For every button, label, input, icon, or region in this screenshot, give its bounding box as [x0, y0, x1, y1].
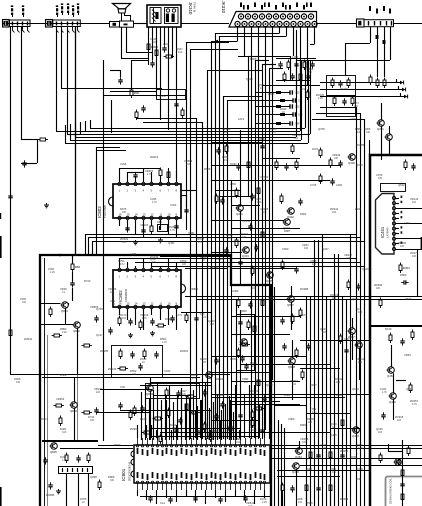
op-amp IC802	[113, 268, 186, 308]
wire	[396, 213, 400, 215]
wire	[151, 425, 153, 438]
svg-text:D664: D664	[300, 212, 307, 216]
wire	[293, 26, 295, 56]
resistor R312	[294, 61, 298, 68]
transistor Q304	[242, 247, 250, 259]
svg-text:ZD388: ZD388	[300, 287, 309, 291]
capacitor C305	[141, 105, 145, 112]
wire	[176, 172, 178, 182]
wire	[230, 401, 280, 403]
wire	[150, 428, 240, 430]
wire	[229, 396, 231, 440]
wire	[396, 233, 400, 235]
svg-text:100: 100	[334, 157, 339, 160]
svg-text:R82: R82	[75, 265, 81, 269]
svg-text:Q453: Q453	[352, 434, 359, 438]
wire	[240, 432, 330, 434]
wire	[137, 490, 139, 496]
capacitor C301	[162, 45, 166, 52]
wire	[135, 266, 137, 268]
wire	[160, 266, 162, 268]
transistor Q809	[205, 372, 213, 379]
resistor R600	[129, 410, 132, 421]
wire	[85, 121, 87, 131]
svg-text:10K: 10K	[172, 427, 177, 430]
resonator X301	[157, 90, 186, 100]
wire	[185, 296, 422, 298]
node JK301 pin	[282, 3, 284, 8]
svg-text:Q267: Q267	[322, 247, 329, 251]
wire	[61, 88, 162, 90]
wire	[181, 312, 211, 314]
svg-text:ZD651: ZD651	[340, 449, 349, 453]
wire	[254, 385, 256, 438]
wire	[334, 254, 336, 506]
svg-text:C30: C30	[120, 385, 125, 389]
transistor Q451	[387, 367, 395, 379]
resistor R345	[281, 260, 284, 271]
wire	[157, 382, 159, 440]
svg-text:Q801: Q801	[61, 309, 68, 313]
wire	[235, 385, 237, 438]
wire	[230, 404, 300, 406]
capacitor C619	[220, 401, 224, 408]
resistor R309	[306, 90, 309, 101]
wire	[47, 335, 49, 506]
wire	[201, 400, 203, 440]
svg-text:ZD990: ZD990	[165, 317, 174, 321]
svg-text:1UF: 1UF	[358, 311, 363, 314]
svg-text:DEGAUSSING COIL: DEGAUSSING COIL	[389, 478, 393, 504]
wire	[231, 180, 233, 255]
resistor R814	[185, 313, 188, 324]
svg-text:4.7K: 4.7K	[382, 391, 387, 394]
resistor R304	[155, 48, 158, 59]
svg-text:10K: 10K	[357, 131, 362, 134]
resistor R456	[409, 383, 412, 394]
svg-text:C332: C332	[164, 369, 171, 373]
wire	[141, 430, 143, 438]
wire	[396, 218, 400, 220]
capacitor C355	[282, 343, 286, 350]
resistor R606	[203, 422, 206, 433]
wire	[85, 234, 356, 236]
svg-text:10K: 10K	[122, 241, 127, 244]
wire	[166, 490, 168, 498]
wire	[396, 198, 400, 200]
svg-text:R800: R800	[400, 273, 407, 277]
svg-text:4.7K: 4.7K	[62, 459, 67, 462]
capacitor C805	[174, 223, 178, 230]
wire	[417, 250, 419, 296]
svg-text:2.2K: 2.2K	[358, 447, 363, 450]
svg-text:ZD133: ZD133	[108, 367, 117, 371]
svg-text:100: 100	[400, 245, 405, 248]
wire	[223, 96, 225, 439]
node JK302 pin	[376, 9, 378, 14]
wire	[181, 400, 183, 438]
wire	[65, 308, 67, 324]
svg-text:ZD542: ZD542	[24, 337, 33, 341]
wire	[77, 328, 79, 374]
svg-text:1K: 1K	[262, 211, 265, 214]
wire	[320, 82, 400, 84]
wire	[196, 299, 422, 301]
wire	[119, 258, 121, 268]
svg-text:2.2K: 2.2K	[50, 271, 55, 274]
wire	[396, 380, 406, 382]
svg-text:D46: D46	[356, 477, 361, 481]
wire	[151, 309, 153, 315]
resistor R354	[237, 298, 240, 309]
wire	[220, 420, 222, 438]
wire	[140, 385, 211, 387]
inductor L301	[255, 92, 290, 94]
resistor R869	[251, 410, 254, 421]
resistor R462	[329, 450, 332, 461]
resistor R359	[295, 348, 298, 359]
shield box SB451	[381, 184, 406, 192]
svg-text:47U: 47U	[192, 377, 197, 380]
svg-text:Q574: Q574	[300, 313, 307, 317]
svg-text:2.2K: 2.2K	[318, 97, 323, 100]
wire	[168, 220, 170, 234]
svg-text:4.5M: 4.5M	[159, 94, 166, 98]
wire	[100, 389, 152, 391]
capacitor C321	[338, 80, 342, 87]
wire	[369, 140, 371, 155]
svg-text:1UF: 1UF	[224, 159, 229, 162]
wire	[240, 310, 242, 440]
diode D33x	[402, 88, 405, 92]
node JK301 pin	[303, 5, 305, 10]
capacitor C812	[150, 318, 154, 325]
wire	[236, 300, 238, 440]
wire	[151, 262, 153, 268]
wire	[150, 378, 152, 385]
wire	[211, 420, 260, 422]
wire	[160, 220, 162, 230]
wire	[277, 470, 370, 472]
wire	[186, 42, 188, 230]
resistor R451	[404, 160, 407, 171]
svg-text:13: 13	[143, 302, 146, 306]
svg-text:IC451: IC451	[380, 226, 385, 238]
svg-text:Q808: Q808	[240, 309, 247, 313]
svg-text:C32: C32	[295, 106, 300, 109]
svg-text:Q808: Q808	[288, 365, 295, 369]
node JK302 pin	[369, 6, 371, 11]
svg-text:IC803: IC803	[97, 206, 102, 218]
svg-text:ZD239: ZD239	[150, 255, 159, 259]
wire	[318, 240, 320, 506]
wire	[2, 23, 110, 25]
svg-text:1UF: 1UF	[294, 137, 299, 140]
wire	[173, 402, 175, 440]
svg-text:Q769: Q769	[96, 307, 103, 311]
svg-text:C382: C382	[232, 289, 239, 293]
wire	[396, 249, 422, 251]
svg-text:Q485: Q485	[330, 433, 337, 437]
svg-text:ZD619: ZD619	[150, 155, 159, 159]
capacitor C607	[214, 413, 218, 420]
node JK301 pin	[289, 5, 291, 10]
svg-text:Q566: Q566	[306, 501, 313, 505]
wire	[193, 390, 195, 440]
svg-text:10K: 10K	[312, 263, 317, 266]
svg-text:10K: 10K	[242, 236, 247, 239]
wire	[74, 377, 76, 402]
resistor R832	[143, 349, 146, 360]
svg-text:47U: 47U	[198, 241, 203, 244]
svg-text:ZD664: ZD664	[180, 349, 189, 353]
wire	[396, 228, 400, 230]
capacitor C341	[250, 193, 254, 200]
wire	[396, 238, 422, 240]
wire	[161, 400, 163, 440]
resistor R618	[185, 402, 188, 413]
resistor R864	[247, 320, 250, 331]
svg-text:JK310: JK310	[188, 2, 193, 15]
wire	[156, 430, 158, 438]
wire	[305, 60, 307, 128]
resistor R343	[280, 194, 283, 205]
svg-text:Q305: Q305	[266, 279, 273, 283]
inductor L321	[351, 96, 354, 107]
resistor R452	[399, 263, 410, 274]
svg-text:4.7K: 4.7K	[147, 173, 152, 176]
svg-text:100: 100	[224, 131, 229, 134]
wire	[143, 258, 145, 268]
resistor R322	[347, 78, 350, 89]
wire	[338, 254, 340, 506]
svg-text:Q137: Q137	[96, 333, 103, 337]
diode D33x	[404, 95, 407, 99]
svg-text:JK310: JK310	[221, 1, 226, 14]
wire	[306, 413, 350, 415]
wire	[377, 27, 379, 77]
svg-text:100: 100	[110, 479, 115, 482]
capacitor C824	[108, 327, 112, 334]
wire	[92, 241, 364, 243]
wire	[240, 364, 330, 366]
wire	[160, 432, 330, 434]
wire	[153, 390, 155, 440]
resistor R352	[261, 230, 264, 241]
svg-text:223: 223	[96, 391, 101, 394]
svg-text:104: 104	[302, 441, 307, 444]
capacitor C345	[338, 160, 342, 167]
transistor Q801	[61, 302, 69, 314]
svg-text:Q804: Q804	[70, 409, 77, 413]
wire	[190, 425, 192, 438]
wire	[168, 258, 170, 268]
svg-text:1UF: 1UF	[178, 51, 183, 54]
wire	[205, 382, 207, 440]
capacitor C823	[94, 315, 98, 322]
wire	[272, 26, 274, 380]
wire	[232, 205, 260, 207]
wire	[310, 296, 312, 506]
svg-text:Q317: Q317	[352, 297, 359, 301]
inductor L304	[255, 114, 293, 116]
svg-text:C84: C84	[157, 220, 162, 224]
transistor Q302	[287, 208, 295, 220]
connector P803	[59, 467, 93, 474]
wire	[310, 60, 312, 134]
capacitor C453	[400, 338, 404, 345]
wire	[181, 388, 183, 440]
resistor R342	[257, 186, 260, 197]
wire	[314, 26, 316, 44]
wire	[140, 496, 270, 498]
inductor L302	[255, 100, 293, 102]
wire	[127, 309, 129, 320]
resistor R459	[379, 453, 382, 464]
resistor R836	[59, 416, 62, 427]
wire	[119, 168, 160, 170]
resistor R458	[407, 446, 410, 457]
op-amp IC803	[109, 182, 182, 219]
wire	[301, 60, 303, 140]
resistor R605b	[190, 411, 201, 414]
transistor Q804	[70, 402, 78, 414]
transistor Q805	[50, 443, 58, 455]
svg-text:4.7K: 4.7K	[162, 341, 167, 344]
wire	[322, 234, 324, 506]
wire	[119, 220, 121, 226]
gnd	[158, 238, 163, 243]
svg-text:223: 223	[202, 361, 207, 364]
svg-text:10K: 10K	[366, 131, 371, 134]
svg-text:104: 104	[298, 501, 303, 504]
transistor Q331	[377, 120, 385, 132]
capacitor C604	[178, 417, 182, 424]
svg-text:4.7K: 4.7K	[412, 403, 417, 406]
node JK301 pin	[247, 5, 249, 10]
transistor Q305	[266, 272, 274, 284]
resistor R348	[319, 174, 322, 185]
resistor R824	[38, 138, 49, 141]
wire	[251, 26, 253, 439]
node P801-2	[22, 5, 24, 17]
resistor R360	[225, 144, 228, 155]
svg-text:223: 223	[244, 381, 249, 384]
resistor R356	[253, 324, 256, 335]
resistor R313	[303, 60, 306, 71]
wire	[346, 299, 348, 506]
resistor R603	[167, 408, 170, 419]
shield box SB802	[237, 315, 255, 371]
svg-text:VR830: VR830	[210, 429, 219, 433]
wire	[276, 80, 310, 82]
wire	[220, 196, 248, 198]
wire	[195, 410, 197, 438]
wire	[235, 490, 237, 496]
svg-text:1UF: 1UF	[257, 201, 262, 204]
wire	[286, 26, 288, 36]
capacitor C451	[411, 163, 415, 170]
svg-text:47U: 47U	[120, 263, 125, 266]
capacitor C353	[238, 319, 242, 326]
svg-text:4.7K: 4.7K	[152, 201, 157, 204]
wire	[276, 58, 316, 60]
svg-text:4.7K: 4.7K	[142, 317, 147, 320]
svg-text:ZD285: ZD285	[100, 349, 109, 353]
svg-text:R629: R629	[284, 393, 291, 397]
svg-text:L332: L332	[350, 117, 356, 121]
resistor R351	[215, 194, 218, 205]
svg-text:VR861: VR861	[190, 287, 199, 291]
svg-text:100: 100	[354, 105, 359, 108]
wire	[306, 296, 308, 506]
wire	[119, 258, 356, 260]
svg-text:C660: C660	[282, 247, 289, 251]
svg-text:R740: R740	[84, 279, 91, 283]
wire	[42, 440, 98, 442]
capacitor C836	[176, 390, 180, 397]
wire	[40, 255, 271, 506]
svg-text:100: 100	[16, 381, 21, 384]
capacitor C357	[236, 163, 240, 170]
resistor R362	[291, 144, 294, 155]
svg-text:Q829: Q829	[230, 357, 237, 361]
wire	[292, 340, 294, 358]
svg-text:470: 470	[272, 131, 277, 134]
wire	[211, 41, 213, 439]
resistor R841	[65, 453, 68, 464]
resistor R316	[290, 73, 294, 80]
wire	[227, 100, 229, 439]
resistor R454	[389, 333, 392, 344]
svg-text:10K: 10K	[412, 255, 417, 258]
resistor R865	[299, 308, 302, 319]
wire	[181, 190, 196, 192]
wire	[205, 395, 207, 438]
wire	[190, 49, 192, 439]
svg-text:L936: L936	[355, 207, 361, 211]
svg-text:12: 12	[151, 213, 154, 217]
wire	[110, 91, 156, 93]
resistor R463	[401, 492, 404, 503]
transistor Q303	[283, 219, 291, 231]
resistor R314	[310, 61, 314, 68]
svg-text:C14: C14	[160, 501, 165, 505]
connector P804	[386, 477, 422, 506]
wire	[135, 176, 137, 182]
wire	[160, 176, 162, 182]
wire	[269, 68, 271, 439]
wire	[65, 125, 67, 143]
wire	[85, 234, 87, 255]
wire	[176, 490, 178, 502]
svg-text:10K: 10K	[376, 287, 381, 290]
wire	[270, 458, 422, 460]
svg-text:104: 104	[186, 163, 191, 166]
wire	[143, 168, 145, 182]
resistor R315	[283, 72, 286, 83]
svg-text:10: 10	[168, 213, 171, 217]
svg-text:Q451: Q451	[168, 241, 175, 245]
resistor R608b	[226, 427, 237, 430]
capacitor C465	[344, 347, 348, 354]
transistor Q332	[385, 134, 393, 141]
capacitor C302	[150, 60, 154, 67]
resistor R821	[71, 262, 81, 273]
svg-text:VR511: VR511	[242, 219, 251, 223]
node JK301 pin	[254, 3, 256, 8]
svg-text:D529: D529	[405, 297, 412, 301]
